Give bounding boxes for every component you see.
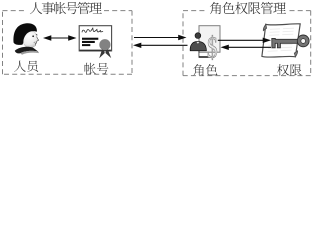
arrow role -> account (140, 44, 187, 46)
icon: certificate (帐号) (79, 26, 111, 59)
arrow role -> permission (218, 39, 264, 41)
icon: role (form, person, dollar) (190, 26, 220, 65)
arrow permission -> role (228, 46, 271, 48)
svg-text:$: $ (207, 29, 218, 64)
label label 权限 (277, 64, 301, 76)
label label 帐号 (85, 63, 109, 75)
arrow account -> role (134, 37, 179, 39)
label title 人事帐号管理 (30, 2, 102, 14)
double-headed arrow person-account (50, 37, 69, 39)
label label 角色 (193, 64, 217, 76)
label title 角色权限管理 (210, 2, 286, 14)
dashed group box: personnel-account management (3, 11, 133, 75)
label label 人员 (14, 61, 38, 72)
icon: permission document with key (权限) (262, 24, 309, 57)
icon: person head profile (人员) (13, 23, 39, 54)
dashed group box: role-permission management (183, 11, 311, 76)
